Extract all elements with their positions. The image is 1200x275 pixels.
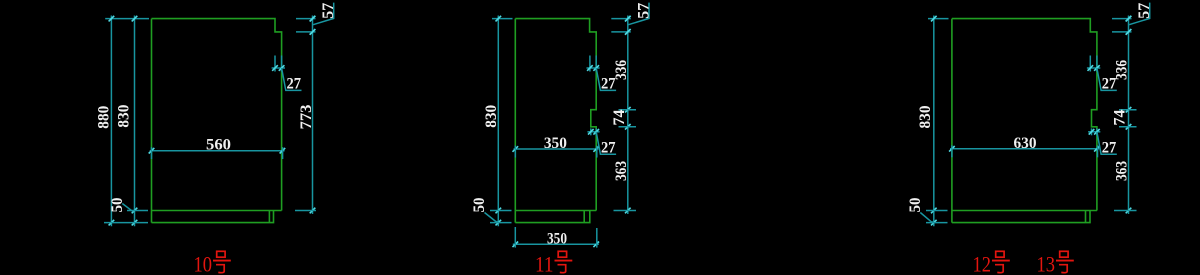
dim 830+50 vertical line (shape 12) — [931, 16, 937, 227]
dim 350 bottom extension right — [596, 228, 598, 248]
svg-text:50: 50 — [109, 197, 126, 212]
svg-text:363: 363 — [613, 161, 630, 181]
svg-text:830: 830 — [483, 105, 500, 128]
dim 350 bottom text — [547, 231, 567, 248]
svg-text:50: 50 — [907, 197, 924, 212]
dim 350 bottom line with ticks (shape 11) — [513, 242, 600, 248]
svg-text:74: 74 — [1112, 109, 1129, 125]
dim 880 vertical line — [109, 16, 115, 227]
dim 560 extension line right — [282, 147, 284, 159]
dim 830 extension line top (shape 12) — [928, 18, 949, 20]
dim 74 text (shape 12) — [1112, 109, 1129, 125]
svg-text:350: 350 — [547, 231, 567, 248]
dim 350 text (shape 11) — [544, 135, 567, 152]
dim 773 extension dash at kick line — [295, 210, 316, 212]
panel 10 kick end cap — [268, 211, 270, 223]
dim 50 text and leader (shape 12) — [907, 197, 934, 222]
dim ext dash notch top (shape 11) — [619, 109, 637, 111]
panel 11 bottom edge and kick end — [515, 211, 590, 223]
dim 830 vertical line — [132, 16, 138, 227]
svg-text:57: 57 — [320, 3, 337, 19]
svg-text:27: 27 — [601, 139, 616, 156]
panel 12-13 kick end cap — [1085, 211, 1087, 223]
dim 27 step (shape 10) — [272, 56, 302, 93]
panel 11 kick top line — [515, 210, 596, 212]
dim 27 step (shape 11) — [587, 56, 617, 93]
dim 630 extension right (shape 12) — [1097, 145, 1099, 157]
svg-text:12: 12 — [973, 252, 992, 275]
dim 830 extension line top (shape 11) — [492, 18, 513, 20]
panel 11 top and right outline — [515, 19, 596, 211]
svg-text:27: 27 — [1102, 76, 1117, 93]
dim ext dash notch bottom (shape 11) — [619, 126, 637, 128]
svg-text:830: 830 — [116, 104, 133, 127]
panel 10 kick top line — [152, 210, 282, 212]
dim 880 extension line top — [105, 18, 149, 20]
dim 773 text — [298, 104, 315, 129]
panel 10 left edge — [151, 19, 153, 223]
svg-text:830: 830 — [917, 105, 934, 128]
dim right vertical line (shape 12) — [1126, 16, 1132, 215]
svg-text:50: 50 — [471, 197, 488, 212]
dim ext dash bottom (shape 12) — [926, 222, 948, 224]
label 12号 — [973, 251, 1010, 275]
dim 560 text — [206, 137, 231, 154]
svg-text:27: 27 — [286, 76, 301, 93]
svg-text:630: 630 — [1014, 135, 1037, 152]
dim 57 (shape 11) — [611, 3, 652, 35]
svg-text:350: 350 — [544, 135, 567, 152]
svg-text:11: 11 — [535, 252, 554, 275]
dim 830 text (shape 12) — [917, 105, 934, 128]
svg-text:74: 74 — [611, 109, 628, 125]
dim 27 step (shape 12) — [1087, 56, 1117, 93]
dim 27 notch (shape 12) — [1088, 128, 1117, 156]
svg-text:27: 27 — [601, 76, 616, 93]
dim 50 text and leader (shape 10) — [109, 197, 135, 212]
dim 57 (shape 10) — [296, 3, 337, 35]
svg-text:363: 363 — [1114, 161, 1131, 181]
dim 773 vertical line — [310, 16, 316, 215]
dim 880 text — [96, 105, 113, 128]
dim ext dash bottom (shape 11) — [490, 222, 512, 224]
label 10号 — [194, 251, 231, 275]
dim right vertical line (shape 11) — [625, 16, 631, 215]
dim 50 text and leader (shape 11) — [471, 197, 498, 222]
dim 830 text (shape 11) — [483, 105, 500, 128]
panel 10 bottom edge and kick end — [152, 211, 274, 223]
dim 336 text (shape 11) — [613, 60, 630, 80]
svg-text:27: 27 — [1102, 139, 1117, 156]
panel 12-13 kick top line — [952, 210, 1097, 212]
dim ext dash kick line (shape 11) — [490, 210, 512, 212]
svg-text:560: 560 — [206, 137, 231, 154]
panel 11 kick end cap — [583, 211, 585, 223]
svg-text:10: 10 — [194, 252, 213, 275]
svg-text:13: 13 — [1037, 252, 1056, 275]
dim 560 line with ticks — [149, 148, 286, 154]
dim ext dash notch top (shape 12) — [1119, 109, 1137, 111]
dim ext dash kick line (shape 12) — [926, 210, 948, 212]
dim 27 notch (shape 11) — [587, 128, 616, 156]
svg-text:57: 57 — [635, 3, 652, 19]
dim ext dash kick right (shape 12) — [1114, 210, 1137, 212]
dim 630 line with ticks (shape 12) — [949, 146, 1100, 152]
dim 830+50 vertical line (shape 11) — [496, 16, 502, 227]
dim 630 extension left (shape 12) — [951, 145, 953, 157]
dim 830 text — [116, 104, 133, 127]
svg-text:880: 880 — [96, 105, 113, 128]
panel 12-13 top and right outline — [952, 19, 1097, 211]
dim 830 extension dash at kick line — [127, 210, 148, 212]
dim 880 extension dash at bottom — [104, 222, 148, 224]
dim 560 extension line left — [151, 147, 153, 159]
dim 630 text (shape 12) — [1014, 135, 1037, 152]
svg-text:57: 57 — [1136, 3, 1153, 19]
dim 74 text (shape 11) — [611, 109, 628, 125]
dim 336 text (shape 12) — [1114, 60, 1131, 80]
panel 10 top and right outline — [152, 19, 282, 211]
panel 12-13 bottom edge and kick end — [952, 211, 1090, 223]
dim 350 extension right (shape 11) — [596, 146, 598, 158]
dim 363 text (shape 11) — [613, 161, 630, 181]
dim 363 text (shape 12) — [1114, 161, 1131, 181]
panel 12-13 left edge — [951, 19, 953, 223]
dim ext dash kick right (shape 11) — [614, 210, 637, 212]
label 13号 — [1037, 251, 1074, 275]
dim 350 bottom extension left — [514, 227, 516, 248]
dim ext dash notch bottom (shape 12) — [1119, 126, 1137, 128]
dim 57 (shape 12) — [1112, 3, 1153, 35]
dim 350 line with ticks (shape 11) — [513, 146, 600, 152]
label 11号 — [535, 251, 572, 275]
svg-text:773: 773 — [298, 104, 315, 129]
dim 350 extension left (shape 11) — [514, 146, 516, 158]
panel 11 left edge — [514, 19, 516, 223]
